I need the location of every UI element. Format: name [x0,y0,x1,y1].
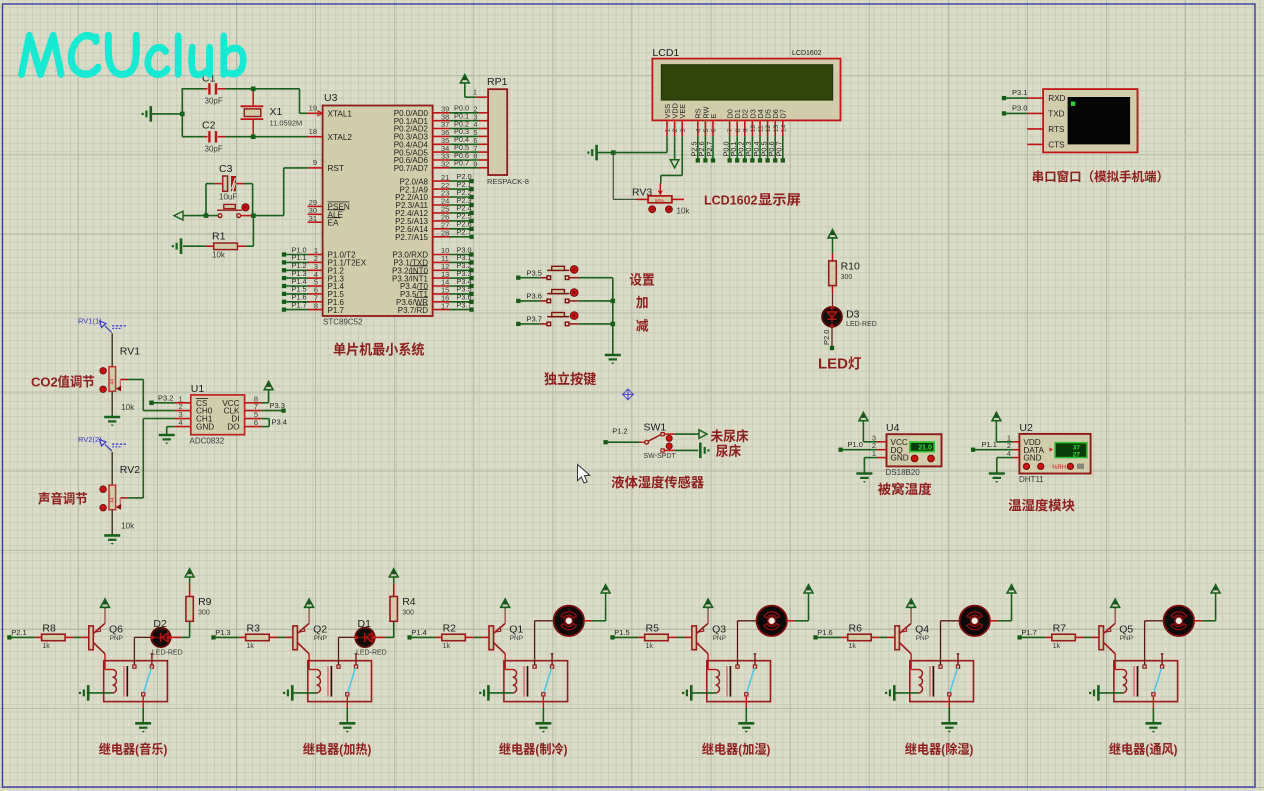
relay NO stub [355,654,358,665]
svg-text:LCD1: LCD1 [652,47,679,59]
svg-text:GND: GND [1023,454,1041,463]
relay coil [1123,670,1127,693]
svg-text:LED-RED: LED-RED [356,650,387,657]
svg-text:11.0592M: 11.0592M [270,119,303,128]
U3 pin 28 P2.7 wire [395,228,474,242]
svg-text:XTAL1: XTAL1 [328,110,353,119]
push button P3.6 [516,289,613,303]
svg-text:37: 37 [1073,445,1081,452]
U4 pin 1 GND [872,449,909,463]
LCD pin 10 D3 [748,109,757,136]
svg-text:U2: U2 [1019,422,1033,434]
serial pin CTS [1027,140,1065,149]
relay NO stub [1161,654,1164,665]
svg-text:R4: R4 [402,596,416,608]
ground (U1) [159,435,175,444]
svg-text:1k: 1k [247,643,255,650]
U2 display 37 / 27 [1050,443,1088,459]
relay contacts [133,665,154,696]
svg-text:17: 17 [441,301,449,310]
net P1.7 input wire [1017,628,1045,640]
net P1.4 input wire [407,628,435,640]
wire buttons common vertical [611,278,616,355]
svg-text:%RH: %RH [1052,465,1066,471]
humidity sensor U2 DHT11 [1019,422,1091,484]
LED D2 LED-RED [151,618,183,657]
ground (U2) [989,474,1005,483]
svg-text:PNP: PNP [510,635,523,642]
U3 pin 39 P0.0 wire to RP1 [394,104,488,118]
wire Q3 collector to relay coil [708,654,716,670]
LCD pin 7 D0 [726,109,735,136]
svg-text:19: 19 [309,104,317,113]
svg-text:RP1: RP1 [487,76,508,88]
U3 pin 17 P3.7 wire [398,300,474,314]
svg-text:(: ( [135,742,139,757]
terminal arrow (reset row) [174,211,218,220]
ground (RV1) [104,417,120,426]
wire LCD RS net P2.5 [690,136,700,162]
motor [757,606,787,636]
ground (relay coil) [479,685,488,701]
wire motor to power [990,607,1012,621]
wire Q1 collector to relay coil [505,654,513,670]
wire R7 to Q5 base [1084,636,1099,638]
caption 声音调节 [38,492,87,505]
wire Q2 collector to relay coil [309,654,317,670]
svg-text:P3.1: P3.1 [1012,88,1027,97]
wire relay common to ground [346,696,348,723]
wire LCD D1 net P0.1 [729,136,739,162]
svg-text:PNP: PNP [110,635,123,642]
U3 pin 35 P0.4 wire to RP1 [394,135,488,149]
wire coil to ground [292,692,316,694]
serial port window (VT) [1043,89,1137,152]
wire P3.1 to RXD [1002,88,1028,100]
svg-text:4: 4 [695,128,702,132]
svg-text:GND: GND [196,423,214,432]
power arrow (R4) [389,569,398,584]
ground (R1) [172,238,181,254]
wire LCD D3 net P0.3 [744,136,754,162]
U3 pin 6 P1.5 wire [282,285,345,299]
transistor Q5 PNP [1099,609,1133,654]
svg-text:10uF: 10uF [219,193,237,202]
caption 继电器(加热) [303,742,371,757]
svg-text:DHT11: DHT11 [1019,475,1044,484]
svg-text:GND: GND [891,454,909,463]
svg-text:RST: RST [328,164,344,173]
wire R2 to Q1 base [474,636,489,638]
power arrow (motor) [601,585,610,607]
svg-text:PNP: PNP [1120,635,1133,642]
ground (relay coil) [79,685,88,701]
resistor R3 1k [239,622,278,650]
power arrow (Q3) [704,599,713,609]
svg-text:P0.7: P0.7 [454,159,469,168]
wire relay common to ground [542,696,544,723]
svg-text:DS18B20: DS18B20 [886,468,921,477]
relay blade (cyan) [1154,668,1162,693]
svg-text:9: 9 [742,128,749,132]
svg-text:): ) [163,742,167,757]
U3 pin RST [308,158,344,173]
ground (relay common) [1145,723,1161,732]
U3 pin 21 P2.0 wire [400,172,474,186]
svg-text:P1.1: P1.1 [982,440,997,449]
ground (relay common) [339,723,355,732]
svg-text:6: 6 [254,418,258,427]
caption 独立按键 [544,372,596,386]
wire C3 left [206,184,223,216]
svg-text:P0.7/AD7: P0.7/AD7 [394,164,429,173]
svg-text:P0.7: P0.7 [775,141,784,156]
svg-text:31: 31 [309,214,317,223]
wire C3 right [236,184,253,216]
potentiometer RV2 [100,452,140,536]
caption 减 [636,319,648,332]
wire LCD D2 net P0.2 [737,136,747,162]
svg-text:STC89C52: STC89C52 [323,318,363,327]
resistor R1 [206,231,246,260]
svg-text:Q4: Q4 [915,624,929,636]
svg-text:RV1(1): RV1(1) [78,317,102,326]
relay blade (cyan) [747,668,755,693]
motor [960,606,990,636]
wire RST vertical [284,168,308,216]
U3 pin 3 P1.2 wire [282,261,345,275]
motor [1164,606,1194,636]
U2 pin 1 VDD [1007,433,1041,447]
svg-text:E: E [709,114,718,119]
wire LCD E net P2.7 [705,136,715,162]
U3 pin XTAL1 [307,104,352,119]
power arrow (Q1) [501,599,510,609]
caption 继电器(加湿) [702,742,770,757]
relay NO stub [754,654,757,665]
svg-text:P1.4: P1.4 [411,628,426,637]
caption LED灯 [818,356,848,373]
LCD pin 5 RW [701,106,710,136]
U3 pin 26 P2.5 wire [395,212,474,226]
svg-text:1k: 1k [646,643,654,650]
svg-text:P3.5: P3.5 [527,269,542,278]
svg-text:28: 28 [441,229,449,238]
svg-text:D7: D7 [779,109,788,118]
wire relay contact to motor [535,621,554,665]
U4 display 21.0 [910,442,934,452]
svg-text:14: 14 [780,125,787,133]
relay coil [919,670,923,693]
svg-text:C3: C3 [219,163,233,175]
reset button [217,204,249,218]
U1 pin 4 GND [175,418,214,432]
U3 pin 11 P3.1 wire [393,253,473,267]
mouse cursor [578,465,590,484]
LCD pin 2 VDD [671,103,680,136]
relay blade (cyan) [544,668,552,693]
caption 继电器(制冷) [499,742,567,757]
relay blade (cyan) [144,668,152,693]
wire P1.0 to U4 DQ [838,440,877,452]
svg-text:10: 10 [750,125,757,133]
relay contacts [1143,665,1164,696]
U1 pin 3 CH1 [175,410,213,424]
wire RV2 wiper to U1 CH1 [128,419,175,498]
transistor Q6 PNP [89,609,123,654]
relay box (通风) [1114,661,1178,702]
svg-text:P2.7/A15: P2.7/A15 [395,233,428,242]
svg-text:TXD: TXD [1048,109,1064,118]
wire U1 GND to ground [167,427,175,435]
wire relay contact to motor [738,621,757,665]
svg-text:R9: R9 [198,596,212,608]
caption 设置 [630,273,654,286]
svg-text:SW1: SW1 [644,421,667,433]
svg-text:LCD1602: LCD1602 [792,50,822,57]
svg-text:U3: U3 [324,92,338,104]
relay blade (cyan) [348,668,356,693]
U3 pin ALE [308,206,345,220]
ground (relay coil) [682,685,691,701]
svg-text:P3.6: P3.6 [527,291,542,300]
power arrow (motor) [1211,585,1220,607]
ground (LCD) [587,145,596,161]
wire button to RST node [241,213,284,218]
U3 pin 33 P0.6 wire to RP1 [394,151,488,165]
svg-text:): ) [970,742,974,757]
svg-text:3: 3 [680,128,687,132]
svg-text:R10: R10 [841,261,860,273]
wire U4 GND to ground [864,458,877,474]
svg-text:R7: R7 [1053,622,1067,634]
wire RV1 wiper to U1 CH0 [128,380,175,411]
wire R1 left to ground [183,245,206,247]
svg-text:LED-RED: LED-RED [152,650,183,657]
svg-text:RV1: RV1 [120,346,140,358]
svg-text:5: 5 [703,128,710,132]
power arrow (motor) [804,585,813,607]
net P1.3 input wire [211,628,239,640]
wire R6 to Q4 base [880,636,895,638]
serial pin RTS [1027,125,1065,134]
power arrow (RP1) [460,75,469,83]
svg-text:21.0: 21.0 [918,445,932,452]
svg-text:RESPACK-8: RESPACK-8 [487,177,529,186]
LED D1 LED-RED [355,618,387,657]
U3 pin 4 P1.3 wire [282,269,345,283]
RP1 pin 1 wire + power [465,83,488,98]
wire Q4 collector to relay coil [911,654,919,670]
svg-text:P3.4: P3.4 [272,418,287,427]
relay blade (cyan) [950,668,958,693]
svg-text:7: 7 [727,128,734,132]
svg-text:Q2: Q2 [313,624,327,636]
transistor Q1 PNP [489,609,523,654]
svg-text:2: 2 [672,128,679,132]
U4 pin 3 VCC [872,433,908,447]
LCD pin 13 D6 [771,109,780,136]
wire relay common to ground [142,696,144,723]
transistor Q2 PNP [293,609,327,654]
push button P3.5 [516,266,613,280]
ground (relay common) [941,723,957,732]
LCD pin 4 RS [694,108,703,136]
svg-text:P3.7/RD: P3.7/RD [398,306,428,315]
U4 buttons [911,455,934,462]
svg-text:27: 27 [1073,452,1081,459]
U3 pin 37 P0.2 wire to RP1 [394,119,488,133]
caption 尿床 [716,444,741,457]
svg-text:300: 300 [841,274,853,281]
svg-text:50%: 50% [655,198,664,203]
svg-text:C2: C2 [202,120,216,132]
power arrow (Q2) [305,599,314,609]
wire relay common to ground [948,696,950,723]
ground (relay coil) [885,685,894,701]
U2 buttons and %RH [1023,463,1084,471]
ground (crystal cluster) [142,106,151,122]
potentiometer RV3 10k [632,184,690,216]
svg-text:44: 44 [110,379,116,385]
switch SW1 SW-SPDT [603,421,676,460]
power arrow (R10) [828,230,837,254]
svg-text:30pF: 30pF [205,145,223,154]
power arrow (R9) [185,569,194,584]
svg-text:Q3: Q3 [712,624,726,636]
caption 被窝温度 [878,482,931,495]
svg-text:D3: D3 [846,309,860,321]
caption 继电器(除湿) [905,742,973,757]
svg-text:(: ( [339,742,343,757]
relay core [727,666,730,697]
wire R1 right to node [246,216,254,247]
relay coil [113,670,117,693]
serial pin TXD [1027,109,1064,118]
svg-text:R2: R2 [443,622,457,634]
power arrow right (SW1) [699,430,707,439]
power arrow (U2) [992,413,1001,429]
resistor R10 300 [829,253,860,293]
svg-text:): ) [767,742,771,757]
svg-text:P2.1: P2.1 [11,628,26,637]
power arrow (U4) [859,413,868,429]
svg-text:10k: 10k [212,251,226,260]
svg-text:1k: 1k [1053,643,1061,650]
U3 pin 1 P1.0 wire [282,245,356,259]
relay box (加湿) [707,661,771,702]
wire LCD D5 net P0.5 [759,136,769,162]
U3 pin EA [308,214,341,228]
svg-text:R6: R6 [849,622,863,634]
wire LCD VSS to ground [597,136,667,155]
svg-text:18: 18 [309,127,317,136]
svg-text:CTS: CTS [1048,140,1065,149]
svg-text:1k: 1k [42,643,50,650]
svg-text:300: 300 [198,610,210,617]
svg-text:Q1: Q1 [509,624,523,636]
transistor Q4 PNP [895,609,929,654]
wire relay common to ground [1152,696,1154,723]
svg-text:6: 6 [711,128,718,132]
U4 pin 2 DQ [872,441,903,455]
svg-text:PNP: PNP [713,635,726,642]
LCD pin 11 D4 [756,109,765,136]
U3 pin 13 P3.3 wire [392,269,474,283]
svg-text:8: 8 [314,301,318,310]
svg-text:1: 1 [665,128,672,132]
LCD pin 12 D5 [764,109,773,136]
relay box (音乐) [104,661,168,702]
wire D3 to P2.0 [822,327,834,351]
wire motor to power [584,607,606,621]
wire R5 to Q3 base [677,636,692,638]
power arrow (U1) [264,382,273,390]
U3 pin 34 P0.5 wire to RP1 [394,143,488,157]
temperature sensor U4 DS18B20 [886,422,942,477]
svg-text:P1.3: P1.3 [215,628,230,637]
wire LED to R9 [170,622,190,637]
relay coil [716,670,720,693]
relay core [524,666,527,697]
svg-text:P2.0: P2.0 [822,330,831,345]
wire P3.2 to U1 CS [149,393,175,405]
wire motor to power [787,607,809,621]
U1 pin 5 DI [231,410,261,424]
ground (relay coil) [1089,685,1098,701]
wire R8 to Q6 base [74,636,89,638]
caption 串口窗口（模拟手机端） [1033,170,1161,182]
wire U2 GND to ground [997,458,1013,474]
svg-text:PNP: PNP [314,635,327,642]
wire U1 CLK net P3.3 [262,401,286,413]
ground (buttons) [605,355,621,364]
potentiometer RV1 [100,333,140,417]
relay core [930,666,933,697]
svg-text:P2.7: P2.7 [705,141,714,156]
svg-text:(: ( [738,742,742,757]
caption 温湿度模块 [1009,499,1075,512]
wire LCD gnd-node to RV3 [613,153,636,200]
caption 加 [636,296,647,309]
resistor R5 1k [638,622,677,650]
svg-text:LED-RED: LED-RED [846,321,877,328]
relay box (除湿) [910,661,974,702]
caption 液体湿度传感器 [612,475,704,488]
svg-text:): ) [1174,742,1178,757]
ADC U1 ADC0832 [190,383,245,446]
resistor R9 300 [186,583,212,621]
relay NO stub [551,654,554,665]
wire LCD VEE to RV3 wiper [661,136,682,183]
wire motor to power [1194,607,1216,621]
svg-text:(: ( [1145,742,1149,757]
svg-text:D2: D2 [153,618,167,630]
svg-text:P1.5: P1.5 [614,628,629,637]
svg-text:P3.3: P3.3 [270,401,285,410]
relay box (加热) [308,661,372,702]
wire SW1 throw2 to ground [664,449,698,451]
transistor Q3 PNP [692,609,726,654]
net P2.1 input wire [7,628,35,640]
U3 pin 2 P1.1 wire [282,253,367,267]
svg-text:32: 32 [441,160,449,169]
voltage probe RV2(2) [78,435,127,451]
U3 pin 8 P1.7 wire [282,300,345,314]
U3 pin 16 P3.6 wire [396,293,474,307]
svg-text:ADC0832: ADC0832 [190,437,225,446]
U3 pin 32 P0.7 wire to RP1 [394,159,488,173]
